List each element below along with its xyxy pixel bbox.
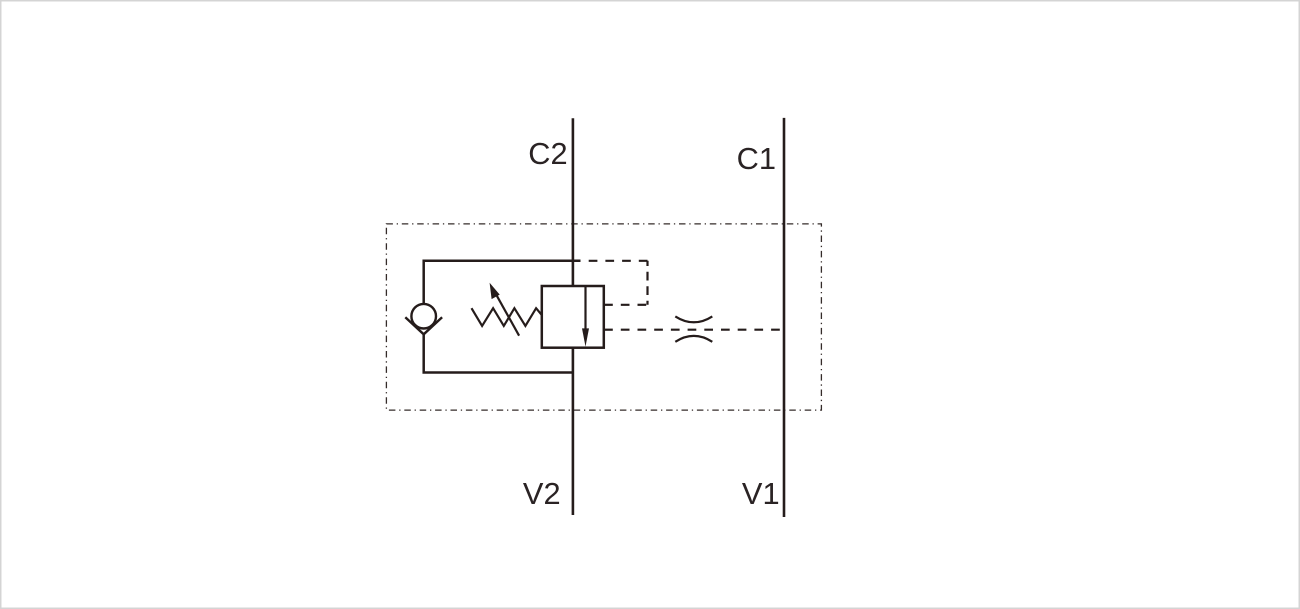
pilot line to C2, return dashed run (613, 304, 648, 306)
check valve seat (405, 317, 442, 334)
orifice upper arc (675, 316, 712, 322)
wire C2-V2 upper segment (572, 118, 575, 286)
valve pilot pin lower (604, 329, 613, 331)
adjustment arrowhead (490, 283, 500, 299)
valve internal flow arrowhead (582, 328, 589, 346)
svg-text:C2: C2 (528, 136, 567, 171)
counterbalance valve body (542, 286, 604, 348)
pilot line to C2, top dashed run (581, 260, 648, 262)
adjustment arrow shaft (494, 290, 519, 335)
svg-text:V1: V1 (742, 476, 780, 511)
valve pilot pin upper (604, 304, 613, 306)
orifice lower arc (675, 336, 712, 342)
adjustable spring (472, 308, 542, 326)
wire C1-V1 line (783, 118, 786, 517)
wire bypass loop bottom (424, 334, 573, 372)
svg-text:C1: C1 (737, 141, 776, 176)
valve internal flow line (584, 286, 586, 330)
svg-text:V2: V2 (523, 476, 561, 511)
valve assembly boundary (dash-dot enclosure) (386, 224, 821, 410)
wire bypass loop top (424, 261, 581, 304)
check valve ball (411, 304, 436, 329)
wire C2-V2 lower segment (572, 348, 575, 515)
pilot line to C1 (dashed) (613, 329, 784, 331)
pilot line to C2, vertical dashed run (646, 261, 648, 305)
